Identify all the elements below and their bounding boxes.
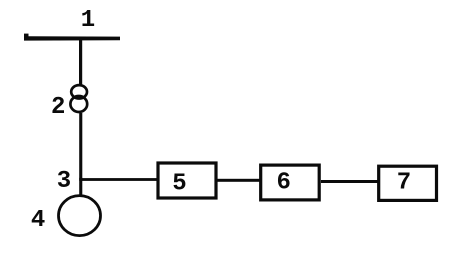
- svg-text:4: 4: [31, 207, 45, 234]
- wire transformer to node 3: [79, 113, 82, 180]
- box 5: [158, 163, 216, 198]
- generator 4: [59, 196, 101, 236]
- wire box 5 to box 6: [218, 179, 261, 182]
- svg-text:2: 2: [51, 94, 65, 121]
- transformer 2: [70, 85, 87, 112]
- wire node 3 to generator 4: [79, 180, 82, 196]
- svg-text:6: 6: [276, 170, 290, 197]
- svg-text:5: 5: [172, 170, 186, 197]
- svg-text:3: 3: [57, 168, 71, 195]
- box 6: [261, 165, 320, 200]
- svg-text:7: 7: [397, 170, 411, 197]
- busbar 1: [24, 34, 120, 41]
- wire node 3 to box 5: [81, 178, 160, 181]
- wire busbar to transformer: [79, 39, 82, 86]
- box 7: [379, 166, 437, 200]
- node 3 junction: [79, 178, 82, 181]
- wire box 6 to box 7: [321, 180, 378, 183]
- svg-text:1: 1: [81, 7, 95, 34]
